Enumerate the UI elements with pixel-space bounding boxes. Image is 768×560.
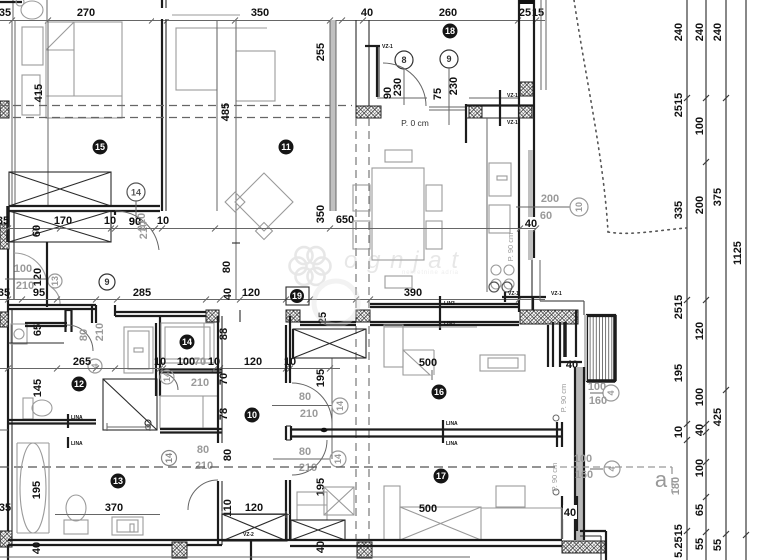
svg-text:VZ-1: VZ-1 — [508, 291, 519, 297]
svg-text:60: 60 — [540, 210, 552, 222]
svg-text:35: 35 — [0, 502, 11, 514]
svg-text:80: 80 — [221, 261, 233, 273]
svg-text:35: 35 — [0, 215, 9, 227]
svg-text:LIN3: LIN3 — [444, 301, 455, 307]
svg-text:200: 200 — [541, 193, 559, 205]
svg-text:350: 350 — [251, 7, 269, 19]
svg-text:14: 14 — [182, 337, 192, 347]
svg-text:5.2515: 5.2515 — [673, 524, 685, 558]
svg-text:210: 210 — [136, 213, 148, 231]
svg-text:4: 4 — [607, 466, 617, 471]
svg-text:1125: 1125 — [732, 241, 744, 265]
svg-text:270: 270 — [77, 7, 95, 19]
svg-text:78: 78 — [218, 408, 230, 420]
svg-text:100: 100 — [177, 356, 195, 368]
svg-text:95: 95 — [33, 287, 45, 299]
svg-text:nekretnine adria: nekretnine adria — [402, 270, 459, 276]
svg-text:2515: 2515 — [673, 295, 685, 319]
svg-text:40: 40 — [31, 542, 43, 554]
svg-text:70: 70 — [218, 373, 230, 385]
svg-text:650: 650 — [336, 214, 354, 226]
svg-text:16: 16 — [434, 387, 444, 397]
svg-text:13: 13 — [113, 476, 123, 486]
svg-text:40: 40 — [694, 424, 706, 436]
svg-text:265: 265 — [73, 356, 91, 368]
svg-text:10: 10 — [157, 215, 169, 227]
svg-text:375: 375 — [712, 188, 724, 206]
svg-text:80: 80 — [299, 446, 311, 458]
svg-text:415: 415 — [33, 84, 45, 102]
svg-text:70: 70 — [194, 356, 206, 368]
svg-text:80: 80 — [299, 391, 311, 403]
svg-text:60: 60 — [31, 225, 43, 237]
svg-text:210: 210 — [94, 323, 106, 341]
svg-text:120: 120 — [245, 502, 263, 514]
svg-text:335: 335 — [673, 201, 685, 219]
svg-text:160: 160 — [575, 469, 593, 481]
svg-text:P. 90 cm: P. 90 cm — [559, 384, 568, 413]
svg-text:80: 80 — [222, 449, 234, 461]
svg-text:370: 370 — [105, 502, 123, 514]
svg-text:11: 11 — [281, 142, 291, 152]
svg-text:240: 240 — [712, 23, 724, 41]
svg-text:17: 17 — [436, 471, 446, 481]
svg-text:195: 195 — [315, 369, 327, 387]
svg-text:LIN3: LIN3 — [444, 321, 455, 327]
svg-text:210: 210 — [300, 408, 318, 420]
svg-text:120: 120 — [32, 268, 44, 286]
svg-text:VZ-1: VZ-1 — [507, 120, 518, 126]
svg-text:VZ-2: VZ-2 — [243, 532, 254, 538]
svg-text:500: 500 — [419, 503, 437, 515]
svg-text:170: 170 — [54, 215, 72, 227]
svg-text:LINA: LINA — [71, 415, 83, 421]
svg-text:VZ-1: VZ-1 — [551, 291, 562, 297]
svg-text:P. 90 cm: P. 90 cm — [550, 463, 559, 492]
svg-text:390: 390 — [404, 287, 422, 299]
svg-text:55: 55 — [712, 539, 724, 551]
svg-text:255: 255 — [315, 43, 327, 61]
svg-text:240: 240 — [694, 23, 706, 41]
svg-text:14: 14 — [335, 401, 345, 411]
svg-text:10: 10 — [104, 215, 116, 227]
svg-text:145: 145 — [32, 379, 44, 397]
svg-text:260: 260 — [439, 7, 457, 19]
svg-text:LINA: LINA — [446, 421, 458, 427]
svg-text:120: 120 — [242, 287, 260, 299]
svg-text:80: 80 — [78, 329, 90, 341]
svg-text:VZ-1: VZ-1 — [507, 93, 518, 99]
svg-text:25: 25 — [519, 7, 531, 19]
svg-text:35: 35 — [0, 287, 10, 299]
svg-text:40: 40 — [222, 288, 234, 300]
svg-text:100: 100 — [574, 453, 592, 465]
svg-text:10: 10 — [154, 356, 166, 368]
svg-text:18: 18 — [445, 26, 455, 36]
svg-text:200: 200 — [694, 196, 706, 214]
svg-text:88: 88 — [218, 328, 230, 340]
svg-text:9: 9 — [104, 277, 109, 287]
svg-text:12: 12 — [74, 379, 84, 389]
svg-text:14: 14 — [131, 188, 141, 198]
svg-text:40: 40 — [564, 507, 576, 519]
svg-text:65: 65 — [694, 504, 706, 516]
svg-text:LINA: LINA — [446, 441, 458, 447]
svg-text:15: 15 — [95, 142, 105, 152]
svg-text:19: 19 — [292, 291, 302, 301]
svg-text:425: 425 — [712, 408, 724, 426]
svg-text:14: 14 — [162, 372, 172, 382]
svg-text:120: 120 — [694, 322, 706, 340]
svg-text:230: 230 — [448, 77, 460, 95]
svg-text:210: 210 — [195, 460, 213, 472]
svg-text:9: 9 — [446, 54, 451, 64]
svg-text:P. 0 cm: P. 0 cm — [401, 118, 429, 128]
svg-text:285: 285 — [133, 287, 151, 299]
svg-text:14: 14 — [333, 454, 343, 464]
svg-text:35: 35 — [0, 7, 11, 19]
svg-text:350: 350 — [315, 205, 327, 223]
svg-text:195: 195 — [31, 481, 43, 499]
svg-text:VZ-1: VZ-1 — [382, 44, 393, 50]
svg-text:100: 100 — [694, 117, 706, 135]
svg-text:180: 180 — [670, 477, 682, 495]
svg-text:8: 8 — [401, 55, 406, 65]
svg-text:14: 14 — [164, 453, 174, 463]
svg-text:a: a — [655, 467, 668, 492]
svg-text:230: 230 — [392, 78, 404, 96]
svg-text:75: 75 — [432, 88, 444, 100]
svg-text:P. 90 cm: P. 90 cm — [506, 233, 515, 262]
svg-text:40: 40 — [361, 7, 373, 19]
svg-text:120: 120 — [244, 356, 262, 368]
svg-text:100: 100 — [14, 263, 32, 275]
svg-text:2515: 2515 — [673, 93, 685, 117]
svg-text:10: 10 — [247, 410, 257, 420]
svg-text:485: 485 — [220, 103, 232, 121]
svg-text:10: 10 — [574, 202, 584, 212]
svg-text:LINA: LINA — [71, 441, 83, 447]
svg-text:210: 210 — [299, 462, 317, 474]
svg-text:13: 13 — [50, 276, 60, 286]
svg-text:100: 100 — [694, 459, 706, 477]
svg-text:240: 240 — [673, 23, 685, 41]
svg-text:100: 100 — [694, 388, 706, 406]
svg-text:10: 10 — [673, 426, 685, 438]
svg-text:4: 4 — [606, 390, 616, 395]
svg-text:500: 500 — [419, 357, 437, 369]
svg-text:80: 80 — [197, 444, 209, 456]
svg-text:210: 210 — [191, 377, 209, 389]
svg-text:195: 195 — [673, 364, 685, 382]
svg-text:55: 55 — [694, 538, 706, 550]
